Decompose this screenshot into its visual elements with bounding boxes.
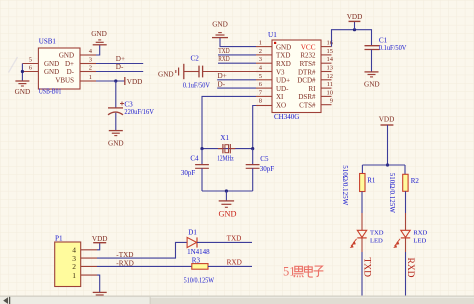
svg-text:V3: V3 xyxy=(276,68,285,76)
svg-text:C2: C2 xyxy=(191,55,200,63)
ground symbol below C3 xyxy=(109,131,123,136)
svg-text:3: 3 xyxy=(259,56,262,63)
svg-text:DTR#: DTR# xyxy=(298,68,316,76)
LED D-RXD cathode bar xyxy=(401,237,410,239)
svg-text:11: 11 xyxy=(327,81,333,88)
svg-text:CTS#: CTS# xyxy=(299,102,316,110)
svg-text:GND: GND xyxy=(44,60,59,68)
P1 pin stubs xyxy=(81,250,97,275)
svg-text:GND: GND xyxy=(108,140,124,148)
svg-text:GND: GND xyxy=(91,30,107,38)
ground symbol below crystal xyxy=(219,201,234,207)
wire R1 to TXD LED xyxy=(361,192,363,214)
svg-text:220uF/16V: 220uF/16V xyxy=(124,108,153,116)
wire crystal bottom rail xyxy=(202,190,253,192)
crystal X1 plates xyxy=(223,144,230,153)
svg-text:10: 10 xyxy=(327,89,334,96)
svg-text:C5: C5 xyxy=(260,155,269,163)
wire crystal top rail xyxy=(202,148,253,150)
USB1 pin 6 stub xyxy=(22,71,38,73)
LED D-RXD bottom pin xyxy=(405,238,407,252)
svg-text:GND: GND xyxy=(219,210,237,219)
wire C3 to ground xyxy=(115,113,117,131)
svg-text:RXD: RXD xyxy=(276,60,291,68)
ground symbol left of USB1 xyxy=(15,81,29,86)
svg-text:3: 3 xyxy=(89,57,92,64)
IC U1 origin dot xyxy=(274,42,276,44)
svg-text:DSR#: DSR# xyxy=(298,93,316,101)
resistor R1 body xyxy=(360,174,365,192)
wire C5 down xyxy=(252,168,254,191)
capacitor C4 plates xyxy=(195,165,209,169)
capacitor C3 top plate xyxy=(108,107,123,109)
svg-text:USB-B01: USB-B01 xyxy=(39,87,62,95)
capacitor C5 plates xyxy=(246,165,260,169)
resistor R2 body xyxy=(403,174,408,191)
svg-text:-TXD: -TXD xyxy=(116,251,133,259)
wire P1 pin4 to VDD xyxy=(97,243,100,250)
capacitor C3 plus sign xyxy=(120,102,124,106)
svg-text:RXD: RXD xyxy=(227,259,242,267)
U1 right pin stubs 9-16 xyxy=(321,47,332,105)
wire bottom rail to ground xyxy=(225,191,227,201)
junction XO/crystal xyxy=(251,147,254,150)
svg-text:XI: XI xyxy=(276,93,284,101)
svg-text:1: 1 xyxy=(259,40,262,47)
svg-text:XO: XO xyxy=(276,102,286,110)
LED D-TXD emission arrows xyxy=(350,239,357,248)
wire P1 pin2 to R3 xyxy=(97,265,192,267)
svg-text:TXD: TXD xyxy=(370,230,384,237)
power port VDD bar (LED rail) xyxy=(381,124,394,126)
svg-text:0.1uF/50V: 0.1uF/50V xyxy=(379,44,407,52)
svg-text:U1: U1 xyxy=(268,31,277,39)
wire rail down to R1 xyxy=(361,165,363,174)
ground symbol above U1 pin1 xyxy=(212,33,228,38)
crystal X1 leads xyxy=(218,148,235,150)
LED D-TXD cathode bar xyxy=(357,237,366,239)
scrollbar left arrow button xyxy=(3,297,8,304)
svg-text:VCC: VCC xyxy=(301,44,316,52)
svg-text:510/0.125W: 510/0.125W xyxy=(184,277,215,285)
svg-text:51: 51 xyxy=(283,264,296,278)
svg-text:D+: D+ xyxy=(65,60,74,68)
svg-text:RTS#: RTS# xyxy=(300,60,316,68)
power port VDD bar (VBUS) xyxy=(124,77,126,85)
wire XO column to C5 xyxy=(252,149,254,165)
wire C1 to ground xyxy=(371,50,373,72)
svg-text:510Ω/0.125W: 510Ω/0.125W xyxy=(388,173,396,213)
wire RXD LED down xyxy=(405,252,407,296)
svg-text:9: 9 xyxy=(330,98,333,105)
wire D+ xyxy=(96,63,143,65)
diode D1 cathode bar xyxy=(196,237,198,247)
watermark glyph dian (electric) xyxy=(304,265,312,277)
wire R3 to RXD xyxy=(208,265,252,267)
svg-text:30pF: 30pF xyxy=(260,165,275,173)
svg-text:R232: R232 xyxy=(300,52,316,60)
USB1 pin 2 stub xyxy=(80,71,96,73)
wire VDD down to rail xyxy=(387,125,389,165)
resistor R3 body xyxy=(192,264,208,270)
wire U1 pin7 (XI) down xyxy=(202,96,256,148)
svg-text:510Ω/0.125W: 510Ω/0.125W xyxy=(341,165,349,205)
svg-text:D-: D- xyxy=(116,63,124,71)
LED D-TXD triangle xyxy=(357,230,366,237)
cursor artifact xyxy=(9,57,18,73)
svg-text:2: 2 xyxy=(89,65,92,72)
svg-text:D1: D1 xyxy=(188,228,197,236)
LED D-RXD emission arrows xyxy=(393,239,400,248)
svg-text:2: 2 xyxy=(259,48,262,55)
LED D-RXD top pin xyxy=(405,213,407,230)
wire C4 down xyxy=(201,168,203,191)
LED D-TXD top pin xyxy=(361,213,363,230)
ground symbol below C1 xyxy=(365,72,379,77)
wire D- xyxy=(96,71,143,73)
junction bottom rail / ground xyxy=(225,189,228,192)
svg-text:13: 13 xyxy=(327,65,334,72)
wire D- (U1 pin6) xyxy=(217,87,256,89)
LED D-TXD bottom pin xyxy=(361,238,363,252)
junction LED rail xyxy=(386,163,389,166)
wire VDD stem xyxy=(354,21,356,29)
wire RXD (U1 pin3) xyxy=(218,62,256,64)
wire C2 left to ground port xyxy=(184,71,199,73)
svg-text:GND: GND xyxy=(15,88,31,96)
svg-text:14: 14 xyxy=(327,56,334,63)
svg-text:VBUS: VBUS xyxy=(55,76,74,84)
svg-text:RXD: RXD xyxy=(405,258,415,278)
ground symbol below P1 pin1 xyxy=(93,292,107,295)
capacitor C1 plates xyxy=(365,46,380,50)
svg-text:5: 5 xyxy=(29,57,32,64)
svg-text:RXD: RXD xyxy=(413,230,427,237)
wire XI column to C4 xyxy=(201,149,203,165)
scrollbar thumb xyxy=(150,297,474,304)
watermark glyph hei (black) xyxy=(294,266,304,277)
svg-text:-RXD: -RXD xyxy=(116,259,134,267)
svg-text:R3: R3 xyxy=(192,257,201,265)
capacitor C3 bottom curved plate xyxy=(108,112,123,115)
svg-text:RI: RI xyxy=(309,85,317,93)
power port VDD bar (top) xyxy=(349,20,361,22)
svg-text:1N4148: 1N4148 xyxy=(187,248,210,256)
svg-text:UD+: UD+ xyxy=(276,77,290,85)
wire D+ (U1 pin5) xyxy=(217,79,256,81)
wire pins 5/6 to ground xyxy=(21,64,23,82)
wire TXD (U1 pin2) xyxy=(218,54,256,56)
svg-text:2: 2 xyxy=(72,262,76,271)
wire R2 to RXD LED xyxy=(405,191,407,213)
U1 left pin stubs 1-8 xyxy=(256,47,272,106)
svg-text:1: 1 xyxy=(72,271,76,280)
junction VBUS/C3 xyxy=(114,79,117,82)
wire U1 pin16 (VCC) up and right xyxy=(332,30,372,47)
svg-text:GND: GND xyxy=(44,68,59,76)
svg-text:TXD: TXD xyxy=(218,48,230,55)
scrollbar xyxy=(0,296,474,304)
P1 pin numbers xyxy=(72,246,76,280)
ground symbol above USB1 pin4 xyxy=(93,40,107,45)
svg-text:GND: GND xyxy=(212,21,228,29)
svg-text:R1: R1 xyxy=(367,177,376,185)
capacitor C2 plates xyxy=(199,66,203,78)
scrollbar track xyxy=(0,296,474,304)
USB1 pin 4 stub xyxy=(80,54,96,56)
svg-text:5: 5 xyxy=(259,73,262,80)
wire C2 to U1 pin4 xyxy=(203,71,256,73)
svg-text:RXD: RXD xyxy=(218,56,230,63)
svg-text:GND: GND xyxy=(276,43,291,51)
svg-text:GND: GND xyxy=(158,71,174,79)
svg-text:CH340G: CH340G xyxy=(274,113,299,121)
wire TXD LED down xyxy=(361,252,363,296)
USB1 pin 1 stub xyxy=(80,80,96,82)
LED D-RXD triangle xyxy=(401,230,410,237)
wire R2 drop xyxy=(404,165,406,174)
U1 left pin names xyxy=(276,43,291,109)
junction pins 5/6 xyxy=(21,70,24,73)
svg-text:12: 12 xyxy=(327,73,334,80)
svg-text:GND: GND xyxy=(59,51,74,59)
svg-text:UD-: UD- xyxy=(276,85,289,93)
junction XI/crystal xyxy=(200,147,203,150)
svg-text:D-: D- xyxy=(67,68,75,76)
svg-text:D-: D- xyxy=(218,81,226,89)
svg-text:D+: D+ xyxy=(218,72,227,80)
svg-text:D+: D+ xyxy=(116,55,125,63)
USB1 pin 5 stub xyxy=(22,63,38,65)
IC U1 body xyxy=(272,40,321,113)
svg-text:LED: LED xyxy=(413,238,426,245)
svg-text:VDD: VDD xyxy=(92,235,108,243)
wire U1 pin8 (XO) down xyxy=(253,106,256,149)
wire U1 pin1 to ground xyxy=(220,38,256,47)
svg-text:VDD: VDD xyxy=(347,13,363,21)
ground symbol sideways at C2 xyxy=(176,64,184,79)
svg-text:VDD: VDD xyxy=(127,78,143,86)
connector USB1 body xyxy=(38,48,80,89)
watermark glyph zi (child) xyxy=(314,266,324,276)
svg-text:VDD: VDD xyxy=(379,115,395,123)
svg-text:30pF: 30pF xyxy=(181,169,196,177)
U1 right pin numbers xyxy=(327,40,334,105)
svg-text:X1: X1 xyxy=(220,134,229,142)
wire P1 pin1 to ground xyxy=(97,275,100,292)
svg-text:TXD: TXD xyxy=(276,52,290,60)
crystal X1 body rect xyxy=(225,145,229,153)
diode D1 triangle xyxy=(187,237,197,247)
wire VBUS to VDD xyxy=(96,80,125,82)
svg-text:USB1: USB1 xyxy=(39,37,57,45)
svg-text:LED: LED xyxy=(370,238,383,245)
U1 right pin names xyxy=(297,52,316,110)
junction VDD / VCC rail xyxy=(353,28,356,31)
wire VBUS down to C3 xyxy=(115,81,117,108)
USB1 pin 3 stub xyxy=(80,63,96,65)
svg-text:DCD#: DCD# xyxy=(297,77,316,85)
U1 left pin numbers xyxy=(259,40,263,105)
wire D1 to TXD xyxy=(197,241,252,243)
svg-text:C4: C4 xyxy=(190,154,199,162)
wire rail to R1 and R2 xyxy=(362,164,405,166)
svg-text:GND: GND xyxy=(364,80,380,88)
connector P1 body xyxy=(55,242,81,287)
power port VDD bar (P1) xyxy=(93,242,106,244)
svg-text:TXD: TXD xyxy=(227,234,242,242)
svg-text:15: 15 xyxy=(327,48,334,55)
svg-text:1: 1 xyxy=(89,74,92,81)
wire P1 pin3 to diode D1 xyxy=(97,242,187,258)
svg-text:16: 16 xyxy=(327,40,334,47)
svg-text:TXD: TXD xyxy=(361,258,371,278)
svg-text:0.1uF/50V: 0.1uF/50V xyxy=(183,82,210,90)
svg-text:8: 8 xyxy=(259,98,262,105)
wire pin4 up to ground xyxy=(96,45,100,55)
svg-text:R2: R2 xyxy=(411,177,420,185)
svg-text:12MHz: 12MHz xyxy=(217,155,234,163)
